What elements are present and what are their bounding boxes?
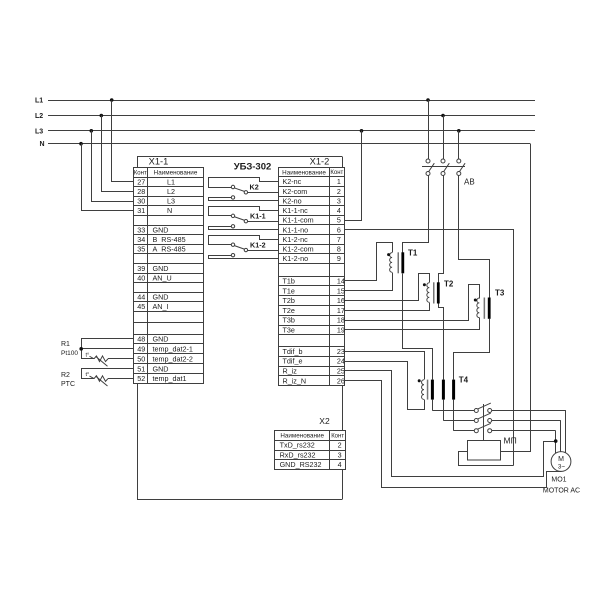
svg-text:L1: L1 [167,177,175,186]
svg-text:L3: L3 [167,197,175,206]
svg-text:temp_dat1: temp_dat1 [153,374,187,383]
svg-text:Наименование: Наименование [280,433,324,440]
svg-text:34: 34 [137,235,145,244]
svg-text:Наименование: Наименование [282,169,326,176]
svg-text:МП: МП [504,435,517,445]
svg-text:Наименование: Наименование [154,170,198,177]
svg-text:GND: GND [153,225,169,234]
svg-text:K1-2: K1-2 [250,240,266,249]
svg-text:K2: K2 [250,183,259,192]
svg-text:R_iz: R_iz [283,367,298,376]
svg-text:t°: t° [86,372,90,378]
svg-text:15: 15 [337,286,345,295]
svg-text:Конт: Конт [134,170,147,176]
svg-text:T3: T3 [495,289,505,298]
svg-text:УБЗ-302: УБЗ-302 [234,162,272,173]
svg-text:28: 28 [137,187,145,196]
svg-text:45: 45 [137,302,145,311]
svg-text:K1-2-nc: K1-2-nc [283,235,309,244]
svg-text:3: 3 [338,450,342,459]
svg-text:3~: 3~ [558,464,566,471]
svg-text:50: 50 [137,354,145,363]
svg-text:X1-1: X1-1 [149,157,169,167]
svg-text:T3b: T3b [283,316,295,325]
svg-text:1: 1 [337,177,341,186]
svg-text:6: 6 [337,225,341,234]
svg-text:R1: R1 [61,341,70,348]
svg-text:T2: T2 [444,280,454,289]
svg-text:8: 8 [337,245,341,254]
svg-text:GND_RS232: GND_RS232 [280,460,322,469]
svg-text:K2-no: K2-no [283,196,302,205]
svg-text:T1b: T1b [283,277,295,286]
svg-text:M: M [558,456,564,463]
svg-text:AN_U: AN_U [153,273,172,282]
svg-text:Pt100: Pt100 [61,350,78,357]
svg-text:L2: L2 [167,187,175,196]
svg-text:T2b: T2b [283,296,295,305]
svg-text:K2-com: K2-com [283,187,308,196]
svg-text:MOTOR AC: MOTOR AC [543,488,580,495]
svg-text:39: 39 [137,264,145,273]
svg-text:PTC: PTC [61,381,75,388]
svg-text:K1-1-com: K1-1-com [283,216,314,225]
svg-text:RxD_rs232: RxD_rs232 [280,450,316,459]
svg-text:52: 52 [137,374,145,383]
svg-text:GND: GND [153,364,169,373]
svg-text:temp_dat2-1: temp_dat2-1 [153,344,193,353]
svg-text:L1: L1 [35,98,43,105]
svg-text:33: 33 [137,225,145,234]
svg-text:AN_I: AN_I [153,302,169,311]
svg-text:4: 4 [338,460,342,469]
svg-text:26: 26 [337,376,345,385]
svg-text:17: 17 [337,306,345,315]
svg-text:T1e: T1e [283,286,295,295]
svg-text:L2: L2 [35,113,43,120]
svg-text:R_iz_N: R_iz_N [283,376,307,385]
svg-text:K2-nc: K2-nc [283,177,302,186]
svg-text:44: 44 [137,293,145,302]
svg-text:TxD_rs232: TxD_rs232 [280,441,315,450]
svg-text:X1-2: X1-2 [310,156,330,166]
svg-text:25: 25 [337,367,345,376]
svg-text:K1-1-no: K1-1-no [283,225,309,234]
svg-text:23: 23 [337,347,345,356]
svg-text:K1-2-no: K1-2-no [283,254,309,263]
svg-text:GND: GND [153,335,169,344]
svg-text:N: N [167,206,172,215]
svg-text:Конт: Конт [331,433,344,439]
svg-text:MO1: MO1 [551,477,566,484]
svg-text:9: 9 [337,254,341,263]
svg-text:t°: t° [86,352,90,358]
svg-text:7: 7 [337,235,341,244]
svg-text:19: 19 [337,326,345,335]
svg-text:N: N [40,141,45,148]
svg-text:Конт: Конт [330,170,343,176]
svg-text:31: 31 [137,206,145,215]
svg-text:27: 27 [137,177,145,186]
svg-text:Tdif_e: Tdif_e [283,357,303,366]
svg-text:Tdif_b: Tdif_b [283,347,303,356]
svg-text:2: 2 [337,187,341,196]
svg-text:35: 35 [137,245,145,254]
svg-text:T1: T1 [408,249,418,258]
svg-text:3: 3 [337,196,341,205]
svg-text:A RS-485: A RS-485 [153,245,186,254]
svg-text:49: 49 [137,344,145,353]
svg-text:GND: GND [153,264,169,273]
svg-text:30: 30 [137,197,145,206]
svg-text:temp_dat2-2: temp_dat2-2 [153,354,193,363]
svg-text:14: 14 [337,277,345,286]
svg-text:K1-2-com: K1-2-com [283,245,314,254]
svg-text:L3: L3 [35,128,43,135]
svg-text:18: 18 [337,316,345,325]
svg-text:K1-1-nc: K1-1-nc [283,206,309,215]
svg-text:2: 2 [338,441,342,450]
svg-text:GND: GND [153,293,169,302]
svg-text:16: 16 [337,296,345,305]
svg-text:T2e: T2e [283,306,295,315]
svg-text:Т4: Т4 [459,375,469,384]
svg-text:T3e: T3e [283,326,295,335]
svg-text:B RS-485: B RS-485 [153,235,186,244]
svg-text:51: 51 [137,364,145,373]
svg-text:48: 48 [137,335,145,344]
svg-text:X2: X2 [319,416,330,426]
svg-text:40: 40 [137,273,145,282]
svg-text:АВ: АВ [464,178,475,187]
svg-text:24: 24 [337,357,345,366]
svg-text:4: 4 [337,206,341,215]
svg-text:R2: R2 [61,372,70,379]
svg-text:5: 5 [337,216,341,225]
svg-text:K1-1: K1-1 [250,211,266,220]
